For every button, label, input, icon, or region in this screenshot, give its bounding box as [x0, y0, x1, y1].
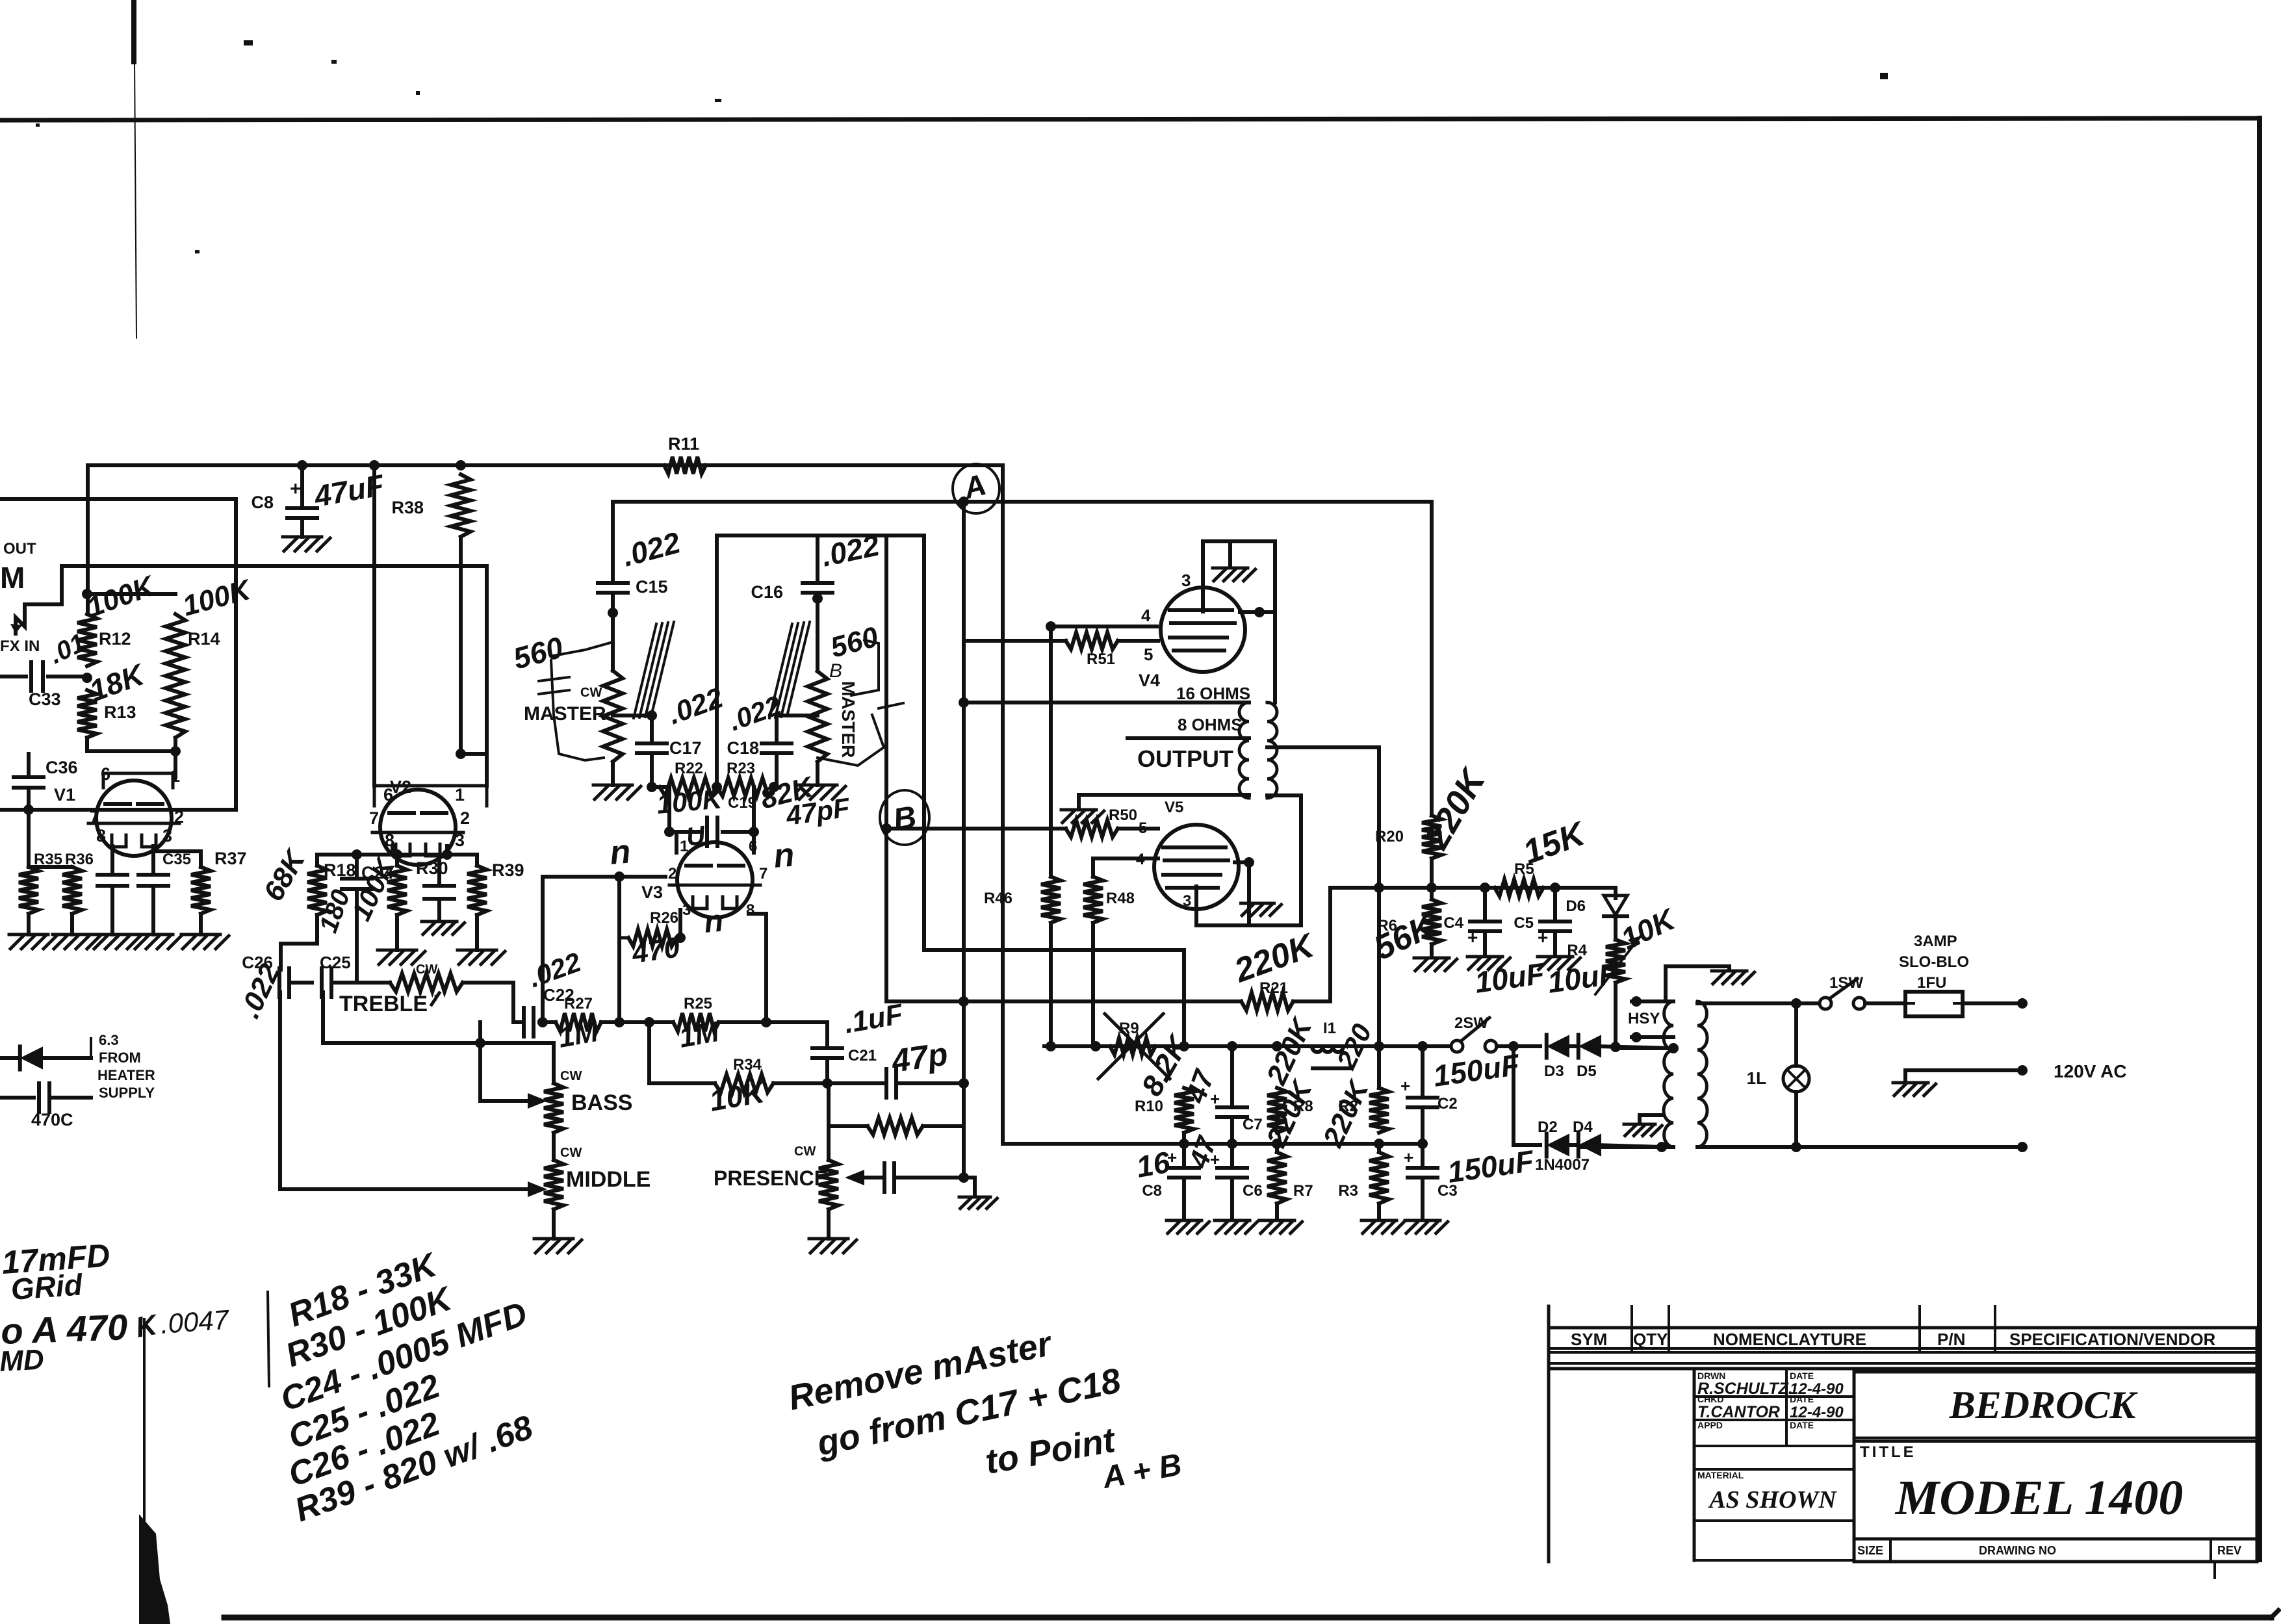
wire R34 row	[649, 1022, 715, 1083]
svg-text:OUTPUT: OUTPUT	[1137, 745, 1233, 772]
node R23 right	[769, 782, 779, 792]
wire out jack link	[25, 566, 62, 614]
svg-text:HEATER: HEATER	[97, 1067, 155, 1083]
svg-text:3: 3	[162, 826, 172, 845]
wire master1 wiper	[613, 710, 657, 721]
wire V1 plate line	[0, 805, 236, 815]
svg-text:7: 7	[759, 865, 767, 883]
resistor R27	[556, 995, 601, 1054]
capacitor C23	[422, 856, 465, 934]
svg-text:.0047: .0047	[159, 1304, 231, 1339]
svg-text:4: 4	[1141, 606, 1151, 625]
ground R39	[457, 915, 505, 964]
svg-text:120V AC: 120V AC	[2054, 1061, 2127, 1081]
node B junction	[880, 790, 929, 845]
wire 16 ohm tap	[959, 697, 1249, 708]
wire D5 to tap	[1596, 1042, 1673, 1052]
svg-text:R26: R26	[650, 909, 678, 927]
svg-text:C16: C16	[751, 582, 783, 602]
wire C26 down	[278, 992, 282, 1189]
V1 pin box	[103, 773, 173, 788]
text 1N4007	[1535, 1156, 1590, 1174]
wire V4 pin4 row	[1046, 621, 1157, 632]
ground V4 top	[1213, 541, 1256, 581]
svg-text:C8: C8	[1142, 1182, 1162, 1200]
svg-text:M: M	[0, 561, 25, 595]
resistor R20	[1375, 761, 1494, 858]
text 120V AC	[2054, 1061, 2127, 1081]
svg-text:R48: R48	[1106, 890, 1135, 907]
fx jack symbol	[10, 611, 25, 634]
page top border	[0, 118, 2260, 120]
capacitor C8b 16uF	[1134, 1133, 1199, 1219]
wire B line to R50	[886, 827, 1066, 831]
resistor R22	[647, 760, 725, 819]
wire B vertical	[881, 535, 892, 1001]
ground R3	[1361, 1220, 1404, 1233]
svg-text:QTY: QTY	[1633, 1330, 1668, 1349]
ground master2	[798, 762, 845, 799]
node R12 R13 C33	[82, 673, 92, 683]
wire R50 to V5	[1118, 827, 1158, 831]
switch 1SW	[1796, 974, 1865, 1009]
svg-text:2: 2	[668, 865, 677, 883]
resistor R35	[19, 851, 62, 914]
wire B+ rail	[88, 463, 1003, 467]
resistor R9 crossed out	[1098, 1014, 1196, 1102]
capacitor C34	[97, 875, 127, 934]
master pot 2	[808, 660, 842, 762]
capacitor C5	[1514, 888, 1570, 955]
wire supply bus	[1044, 1041, 1451, 1051]
svg-text:+: +	[1538, 927, 1548, 947]
svg-text:PRESENCE: PRESENCE	[714, 1166, 828, 1190]
resistor R51	[1066, 632, 1118, 668]
svg-text:TREBLE: TREBLE	[339, 992, 428, 1016]
svg-text:CW: CW	[416, 962, 437, 977]
V1 pin labels	[90, 764, 184, 845]
page right border	[2257, 118, 2262, 1560]
wire bus to D6	[1611, 888, 1616, 898]
capacitor C4	[1443, 888, 1500, 955]
wire D3-D5	[1564, 1044, 1578, 1048]
capacitor C36	[14, 754, 78, 810]
svg-text:C36: C36	[45, 758, 78, 777]
svg-text:47p: 47p	[889, 1035, 950, 1079]
svg-text:DATE: DATE	[1790, 1394, 1814, 1404]
ground C5	[1538, 957, 1580, 970]
svg-text:R11: R11	[668, 434, 699, 454]
wire R34 to C21	[773, 1078, 832, 1089]
svg-text:R9: R9	[1119, 1020, 1139, 1037]
svg-text:R23: R23	[727, 760, 755, 777]
heater diode	[0, 1038, 91, 1070]
svg-text:220: 220	[1330, 1019, 1378, 1074]
node R27 R25	[614, 938, 625, 1027]
ground presence cap	[959, 1197, 997, 1209]
svg-text:R25: R25	[684, 995, 712, 1012]
svg-text:DRAWING NO: DRAWING NO	[1979, 1544, 2056, 1557]
resistor R23	[717, 760, 818, 816]
wire y871 line	[62, 566, 487, 598]
svg-text:R37: R37	[214, 849, 247, 868]
wire R4 down to tap	[1614, 983, 1617, 1048]
svg-text:T.CANTOR: T.CANTOR	[1697, 1403, 1780, 1421]
text OUT jack	[0, 540, 36, 595]
output transformer secondary	[1239, 702, 1249, 798]
svg-text:R10: R10	[1135, 1098, 1163, 1115]
wire A corner to C15	[611, 502, 615, 583]
ground C8b	[1166, 1220, 1209, 1233]
diode D4	[1573, 1118, 1601, 1157]
ground C35	[134, 934, 181, 949]
fuse 1FU	[1865, 974, 1963, 1016]
svg-text:.022: .022	[619, 525, 684, 573]
wire HSY tap2	[1631, 1032, 1673, 1042]
diode D3	[1544, 1035, 1569, 1080]
lamp 1L	[1747, 1003, 1809, 1147]
svg-text:R30: R30	[416, 858, 448, 878]
svg-text:8: 8	[746, 901, 754, 919]
wire V2 loop right	[485, 566, 489, 786]
wire V3 pin stubs	[677, 832, 754, 853]
ground HSY mid	[1624, 1115, 1664, 1136]
wire master2 wiper	[777, 714, 818, 717]
hw note 17mFD	[1, 1237, 111, 1280]
svg-text:SUPPLY: SUPPLY	[99, 1085, 155, 1101]
resistor R8	[1260, 1012, 1319, 1133]
node R22 R23	[712, 782, 722, 792]
scan artifact left smudge	[139, 1319, 170, 1624]
wire V2 left vert	[372, 465, 376, 786]
svg-text:MATERIAL: MATERIAL	[1697, 1470, 1744, 1480]
svg-text:68K: 68K	[257, 844, 312, 907]
svg-text:SPECIFICATION/VENDOR: SPECIFICATION/VENDOR	[2009, 1330, 2216, 1349]
wire x1103 drop	[715, 535, 719, 787]
svg-text:V1: V1	[54, 785, 75, 805]
ground HSY top	[1712, 971, 1755, 984]
wire grid bottom	[87, 738, 181, 777]
svg-text:SYM: SYM	[1571, 1330, 1607, 1349]
resistor R30	[346, 852, 448, 925]
svg-text:n: n	[772, 836, 796, 875]
svg-text:SIZE: SIZE	[1857, 1544, 1883, 1557]
wire bottom terminal	[1796, 1142, 2028, 1152]
wire D2-D4	[1564, 1143, 1578, 1147]
wire C16 loop	[717, 535, 924, 583]
svg-text:3: 3	[455, 831, 465, 850]
wire cathode rail	[29, 810, 72, 867]
wire HSY top ground	[1666, 966, 1729, 1001]
wire fx loop box top	[0, 497, 236, 501]
svg-text:R13: R13	[104, 702, 136, 722]
svg-text:+: +	[290, 478, 302, 500]
resistor R13	[77, 657, 149, 738]
capacitor C2	[1400, 1041, 1523, 1144]
svg-text:C8: C8	[251, 493, 274, 512]
ground R6	[1414, 944, 1457, 971]
ground C3	[1405, 1220, 1448, 1233]
svg-text:CW: CW	[580, 686, 602, 700]
svg-text:U: U	[684, 821, 708, 852]
svg-text:1M: 1M	[677, 1016, 722, 1054]
svg-text:B: B	[891, 800, 919, 838]
wire treble right	[463, 983, 520, 1022]
text fuse rating	[1899, 933, 1969, 971]
wire R51 to V4	[1118, 639, 1158, 643]
svg-text:CW: CW	[794, 1144, 816, 1159]
bottom border	[224, 1610, 2278, 1618]
svg-text:+: +	[1467, 927, 1478, 947]
svg-text:220K: 220K	[1317, 1074, 1376, 1152]
capacitor C6	[1183, 1132, 1263, 1219]
V4 pin labels	[1141, 571, 1191, 664]
text FX IN	[0, 638, 40, 655]
svg-text:C25: C25	[320, 953, 351, 972]
heater cap 470C	[0, 1058, 91, 1129]
wire secondary common	[1079, 795, 1249, 807]
ground C8	[283, 537, 330, 551]
resistor R12	[77, 569, 160, 666]
capacitor C25	[320, 953, 364, 997]
capacitor C15	[598, 525, 684, 597]
capacitor C7	[1179, 1046, 1263, 1144]
wire HSY tap3	[1616, 1043, 1679, 1053]
ground C34	[93, 934, 140, 949]
wire tone top rail	[317, 846, 477, 860]
hw remove master note	[785, 1324, 1184, 1495]
svg-text:6.3: 6.3	[99, 1032, 119, 1048]
svg-text:8 OHMS: 8 OHMS	[1178, 715, 1243, 734]
capacitor C35	[138, 851, 191, 934]
capacitor C18	[725, 690, 792, 787]
wire R27-R25 link	[601, 1017, 673, 1027]
tube V3	[641, 842, 760, 918]
text OUTPUT	[1137, 745, 1233, 772]
diode D2	[1538, 1118, 1569, 1157]
svg-text:R34: R34	[733, 1056, 762, 1074]
svg-text:MASTER: MASTER	[524, 703, 606, 725]
svg-text:R27: R27	[564, 995, 593, 1012]
wire HSY bottom	[1579, 1142, 1673, 1152]
wire fuse to terminal	[1963, 998, 2028, 1009]
ground R7	[1259, 1220, 1302, 1233]
tube V5	[1154, 799, 1239, 909]
ground presence pot	[809, 1209, 857, 1253]
svg-text:AS SHOWN: AS SHOWN	[1708, 1486, 1837, 1514]
svg-text:MODEL 1400: MODEL 1400	[1895, 1471, 2184, 1525]
svg-text:.1uF: .1uF	[842, 998, 906, 1040]
wire y1541 grid line	[886, 996, 1241, 1007]
svg-text:3: 3	[682, 901, 691, 919]
wire V4 grid row	[964, 639, 1066, 643]
svg-text:K: K	[133, 1309, 161, 1344]
ground master1	[593, 762, 641, 799]
svg-text:150uF: 150uF	[1445, 1144, 1537, 1189]
svg-text:FROM: FROM	[99, 1050, 141, 1066]
transformer HSY secondary	[1628, 1001, 1673, 1147]
svg-text:BASS: BASS	[571, 1090, 632, 1115]
wire fx loop box right	[234, 499, 238, 807]
svg-text:7: 7	[369, 808, 379, 828]
capacitor C19	[707, 792, 853, 846]
wire V5 plate link	[1235, 857, 1254, 925]
master2 mod scribble	[818, 640, 903, 766]
text MASTER 1	[524, 703, 606, 725]
hw 10uF C5	[1545, 956, 1620, 999]
svg-text:470C: 470C	[31, 1110, 73, 1129]
svg-text:R7: R7	[1293, 1182, 1313, 1200]
svg-text:C19: C19	[728, 794, 756, 812]
svg-text:2: 2	[460, 808, 470, 828]
tube V1	[54, 780, 179, 856]
ground R36	[53, 914, 100, 949]
svg-text:5: 5	[1144, 645, 1153, 664]
capacitor C16	[751, 528, 883, 602]
scan artifact top-left vertical	[134, 0, 136, 338]
svg-text:C2: C2	[1437, 1095, 1458, 1113]
ground C4	[1467, 957, 1510, 970]
master1 mod scribble	[539, 642, 613, 760]
wire primary bottom	[1697, 1142, 1801, 1152]
resistor R3	[1317, 1074, 1389, 1219]
wire C19 row	[652, 787, 759, 837]
resistor R38	[391, 474, 470, 537]
svg-text:C7: C7	[1243, 1116, 1263, 1133]
tube V2	[372, 777, 463, 865]
master1 hatch marks	[634, 622, 674, 718]
svg-text:+: +	[1404, 1148, 1413, 1167]
resistor R34	[707, 1056, 773, 1118]
middle pot	[544, 1133, 651, 1209]
svg-text:REV: REV	[2217, 1544, 2241, 1557]
svg-text:DATE: DATE	[1790, 1371, 1814, 1381]
node A junction	[953, 464, 999, 513]
resistor R7	[1260, 1074, 1319, 1219]
hw 560 master2	[827, 621, 882, 664]
wire R20 to bus	[1426, 858, 1437, 893]
capacitor C3	[1404, 1144, 1537, 1219]
svg-text:R46: R46	[984, 890, 1012, 907]
svg-text:C33: C33	[29, 690, 61, 709]
wire A line corner down	[1430, 502, 1434, 816]
node rail-V2	[369, 460, 380, 470]
master pot 1	[580, 671, 623, 762]
svg-text:V4: V4	[1139, 671, 1160, 690]
svg-text:n: n	[608, 832, 632, 872]
resistor R2	[1330, 1019, 1389, 1133]
svg-text:R3: R3	[1338, 1182, 1358, 1200]
svg-text:OUT: OUT	[3, 540, 36, 558]
svg-text:16 OHMS: 16 OHMS	[1176, 684, 1250, 703]
resistor R46	[984, 626, 1061, 923]
wire rail corner down	[1001, 465, 1005, 1144]
resistor R10	[1135, 1088, 1194, 1133]
wire mid rail	[1003, 1139, 1428, 1149]
svg-text:C35: C35	[162, 851, 191, 868]
V3 pin labels	[668, 838, 767, 919]
svg-text:6: 6	[749, 838, 757, 855]
V2 pin box	[374, 786, 487, 806]
svg-text:3: 3	[1183, 892, 1191, 910]
scan artifact fold line	[268, 1292, 269, 1386]
wire R12 R14 top rail	[82, 589, 175, 599]
hw 560 master1	[509, 630, 567, 675]
resistor R5	[1495, 814, 1592, 896]
wire HSY tap1	[1631, 996, 1673, 1007]
wire V5 pin4 row	[1093, 857, 1158, 860]
inductor I1	[1306, 1020, 1349, 1068]
svg-text:C18: C18	[727, 738, 759, 758]
capacitor C20 47p	[827, 1035, 969, 1098]
diode D5	[1577, 1035, 1601, 1080]
svg-text:1SW: 1SW	[1829, 974, 1863, 992]
svg-text:5: 5	[1139, 819, 1147, 837]
diode D6	[1566, 896, 1627, 940]
wire R27 row	[537, 1017, 556, 1027]
wire y1605 row	[323, 1022, 554, 1048]
capacitor C21	[812, 998, 906, 1083]
svg-text:MASTER: MASTER	[838, 681, 858, 758]
wire middle feed arrow	[280, 1181, 547, 1197]
resistor R39	[467, 855, 524, 915]
svg-text:R36: R36	[65, 851, 94, 868]
svg-text:TITLE: TITLE	[1860, 1443, 1916, 1461]
svg-text:15K: 15K	[1518, 814, 1592, 871]
wire V3 grid line	[543, 877, 665, 1022]
svg-text:V3: V3	[641, 883, 663, 902]
ground R30	[378, 915, 425, 964]
wire V3 pin8 drop	[749, 914, 766, 1022]
hw note 470K line	[0, 1304, 231, 1352]
wire after 2SW	[1497, 1041, 1540, 1051]
resistor R4 pot	[1567, 936, 1641, 994]
resistor R50	[1066, 806, 1137, 837]
svg-text:D5: D5	[1577, 1063, 1597, 1080]
svg-text:BEDROCK: BEDROCK	[1949, 1384, 2139, 1426]
title box	[1854, 1328, 2257, 1578]
svg-text:220K: 220K	[1417, 761, 1494, 856]
presence pot	[794, 1126, 838, 1209]
text 8 OHMS	[1178, 715, 1243, 734]
wire R25 right	[719, 1017, 827, 1027]
svg-text:HSY: HSY	[1628, 1010, 1660, 1027]
svg-text:3AMP: 3AMP	[1914, 933, 1957, 950]
svg-text:R12: R12	[99, 629, 131, 649]
ground mains	[1893, 1083, 1936, 1096]
wire R46 R48 bottoms	[1051, 923, 1093, 1046]
svg-text:R22: R22	[675, 760, 703, 777]
ground R35	[9, 914, 57, 949]
wire C25 down	[321, 992, 325, 1043]
parts table header	[1549, 1306, 2257, 1562]
wire V4 pin3 top	[1203, 541, 1275, 702]
svg-text:560: 560	[509, 630, 567, 675]
wire y1366 bus	[1330, 883, 1611, 893]
svg-text:DATE: DATE	[1790, 1420, 1814, 1430]
svg-text:8: 8	[96, 826, 106, 845]
resistor R18	[257, 844, 355, 915]
mains middle terminal	[1905, 1065, 2028, 1080]
wire primary top	[1697, 998, 1801, 1009]
svg-text:to Point: to Point	[983, 1420, 1119, 1481]
output transformer primary	[1267, 702, 1277, 798]
svg-text:470: 470	[630, 931, 682, 970]
text PRESENCE	[714, 1166, 828, 1190]
svg-text:D2: D2	[1538, 1118, 1558, 1136]
resistor R36	[62, 851, 94, 914]
capacitor C24	[314, 855, 393, 983]
